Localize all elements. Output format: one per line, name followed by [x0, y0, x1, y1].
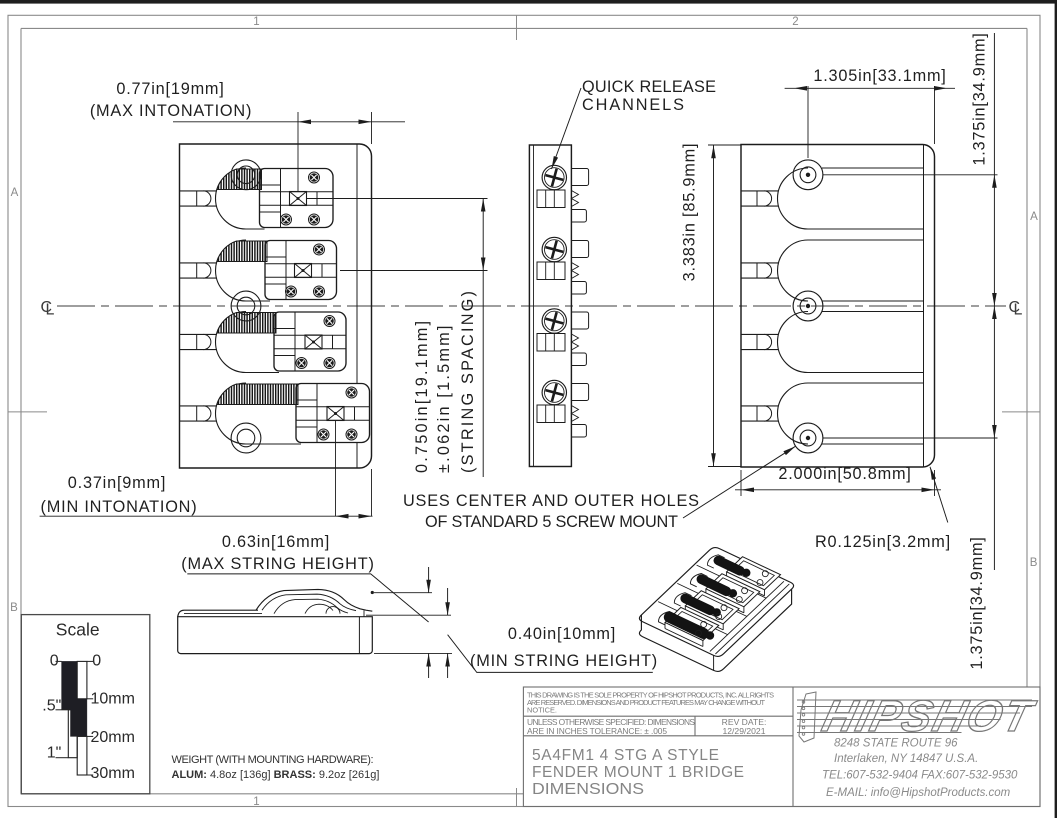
- svg-text:0.40in[10mm]: 0.40in[10mm]: [508, 625, 616, 643]
- svg-text:12/29/2021: 12/29/2021: [722, 726, 765, 736]
- svg-text:(MIN STRING HEIGHT): (MIN STRING HEIGHT): [470, 652, 658, 670]
- svg-text:5A4FM1 4 STG A STYLE: 5A4FM1 4 STG A STYLE: [532, 747, 719, 764]
- svg-text:USES CENTER AND OUTER HOLES: USES CENTER AND OUTER HOLES: [403, 492, 699, 510]
- svg-text:CHANNELS: CHANNELS: [582, 96, 684, 114]
- svg-text:0.77in[19mm]: 0.77in[19mm]: [116, 80, 224, 98]
- svg-text:20mm: 20mm: [91, 729, 135, 746]
- svg-text:OF STANDARD 5 SCREW MOUNT: OF STANDARD 5 SCREW MOUNT: [425, 513, 678, 531]
- svg-text:1.375in[34.9mm]: 1.375in[34.9mm]: [971, 32, 989, 165]
- svg-text:1": 1": [47, 745, 62, 762]
- svg-text:B: B: [1030, 557, 1038, 569]
- svg-text:(MIN INTONATION): (MIN INTONATION): [41, 498, 198, 516]
- svg-text:B: B: [10, 602, 18, 614]
- svg-text:ALUM: 4.8oz [136g] BRASS: 9.2o: ALUM: 4.8oz [136g] BRASS: 9.2oz [261g]: [172, 769, 380, 781]
- svg-text:ARE IN INCHES TOLERANCE: ± .0: ARE IN INCHES TOLERANCE: ± .005: [527, 726, 667, 736]
- svg-text:0.750in[19.1mm]: 0.750in[19.1mm]: [413, 319, 431, 473]
- svg-text:TEL:607-532-9404 FAX:607-532-9: TEL:607-532-9404 FAX:607-532-9530: [822, 770, 1018, 782]
- svg-text:FENDER MOUNT 1 BRIDGE: FENDER MOUNT 1 BRIDGE: [532, 764, 744, 781]
- svg-text:1: 1: [253, 796, 259, 808]
- svg-text:R0.125in[3.2mm]: R0.125in[3.2mm]: [815, 533, 951, 551]
- svg-text:Interlaken, NY 14847 U.S.A.: Interlaken, NY 14847 U.S.A.: [834, 753, 978, 765]
- svg-text:0: 0: [92, 652, 101, 669]
- svg-text:WEIGHT (WITH MOUNTING HARDWARE: WEIGHT (WITH MOUNTING HARDWARE):: [172, 754, 374, 766]
- svg-text:30mm: 30mm: [91, 765, 135, 782]
- svg-text:8248 STATE ROUTE 96: 8248 STATE ROUTE 96: [834, 738, 958, 750]
- svg-text:2: 2: [792, 16, 798, 28]
- svg-text:A: A: [11, 187, 19, 199]
- svg-text:QUICK RELEASE: QUICK RELEASE: [582, 78, 716, 96]
- svg-text:.5": .5": [42, 698, 61, 715]
- svg-text:(MAX INTONATION): (MAX INTONATION): [90, 102, 252, 120]
- svg-text:E-MAIL: info@HipshotProducts.c: E-MAIL: info@HipshotProducts.com: [826, 787, 1011, 799]
- svg-text:0: 0: [50, 652, 59, 669]
- svg-text:1.375in[34.9mm]: 1.375in[34.9mm]: [968, 536, 986, 669]
- svg-text:(STRING SPACING): (STRING SPACING): [459, 289, 477, 473]
- svg-text:1.305in[33.1mm]: 1.305in[33.1mm]: [813, 67, 946, 85]
- svg-text:3.383in [85.9mm]: 3.383in [85.9mm]: [681, 143, 699, 282]
- svg-text:1: 1: [253, 16, 259, 28]
- svg-text:L: L: [46, 302, 55, 319]
- svg-text:0.63in[16mm]: 0.63in[16mm]: [222, 533, 330, 551]
- svg-text:Scale: Scale: [56, 620, 100, 640]
- svg-text:10mm: 10mm: [91, 691, 135, 708]
- svg-text:DIMENSIONS: DIMENSIONS: [532, 781, 644, 798]
- svg-text:0.37in[9mm]: 0.37in[9mm]: [68, 474, 166, 492]
- svg-text:2.000in[50.8mm]: 2.000in[50.8mm]: [778, 465, 911, 483]
- svg-text:(MAX STRING HEIGHT): (MAX STRING HEIGHT): [181, 555, 374, 573]
- svg-text:NOTICE.: NOTICE.: [527, 706, 557, 715]
- svg-text:ARE RESERVED. DIMENSIONS AND P: ARE RESERVED. DIMENSIONS AND PRODUCT FEA…: [527, 698, 765, 707]
- svg-text:L: L: [1014, 302, 1023, 319]
- svg-text:±.062in [1.5mm]: ±.062in [1.5mm]: [435, 323, 453, 473]
- svg-text:A: A: [1030, 211, 1038, 223]
